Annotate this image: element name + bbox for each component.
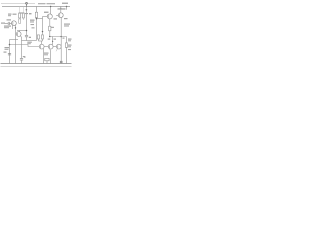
- wire Q5 emitter down: [49, 49, 51, 64]
- node junction dot C: [9, 44, 11, 46]
- label top right corner: [62, 3, 68, 4]
- wire C2 bottom: [26, 37, 28, 41]
- transistor Q7 top right: [58, 13, 63, 18]
- wire coupling line y40.5: [22, 40, 37, 42]
- wire Q6 base: [53, 46, 56, 48]
- wire R2 stubs: [22, 7, 24, 14]
- resistor R1: [19, 13, 21, 18]
- wire horizontal y36.5: [50, 36, 67, 38]
- label near x9.5: [5, 47, 10, 48]
- wire Q6 emitter stub: [56, 49, 57, 52]
- node junction dot B: [15, 27, 16, 28]
- wire bottom faint frame line: [1, 66, 72, 68]
- label plus C4: [23, 56, 26, 57]
- resistor R2: [22, 13, 24, 18]
- transistor Q5: [48, 44, 53, 49]
- node junction dot F: [49, 36, 51, 38]
- wire long vertical x61.2: [60, 18, 62, 64]
- node rail dot Q3: [50, 6, 51, 7]
- node supply terminal: [26, 2, 28, 6]
- wire feedback horizontal y44.5: [10, 45, 40, 47]
- wire cap to rail: [21, 60, 23, 64]
- label near x61 mid: [63, 38, 65, 39]
- wire R7 to rail: [46, 61, 48, 64]
- wire bottom 0V rail: [1, 63, 72, 65]
- resistor R8: [65, 43, 67, 48]
- wire Q3 emitter down: [49, 19, 51, 26]
- label R1 R2 values: [13, 14, 17, 15]
- wire drop to Q5: [52, 37, 54, 45]
- capacitor C1 input: [5, 22, 12, 25]
- wire rail stub x66.5: [66, 7, 68, 10]
- wire Q4 top: [41, 41, 43, 44]
- wire diode links: [37, 39, 39, 41]
- label right of x26.5: [30, 20, 35, 21]
- wire Q3 collector up: [50, 7, 52, 15]
- node junction dot D: [36, 18, 38, 20]
- node junction dot A: [26, 9, 28, 11]
- text labels as smudges: [1, 3, 72, 58]
- transistor Q1: [12, 21, 17, 26]
- transistor Q2: [16, 32, 21, 37]
- diode D2: [41, 35, 43, 39]
- wire R4 to node: [49, 31, 51, 37]
- node junction dot H: [52, 41, 53, 42]
- wire vertical x9.5: [9, 40, 11, 64]
- label input: [7, 19, 12, 20]
- resistor R3: [35, 12, 37, 17]
- transistor Q6: [56, 44, 61, 49]
- transistor Q4: [39, 44, 44, 49]
- node junction dot E: [42, 31, 43, 32]
- wire vertical x36.5: [36, 7, 38, 41]
- node junction dot G: [60, 36, 62, 38]
- wire Q4-Q5 link: [44, 46, 48, 48]
- label right of Q3: [54, 18, 58, 19]
- label right of Q7: [64, 18, 68, 19]
- wire Q1 collector leg: [12, 25, 14, 29]
- wire Q1 emitter long vertical x15.5: [15, 25, 17, 63]
- label above R7: [44, 53, 49, 54]
- label above Q3: [44, 12, 49, 13]
- label R5 under rail right: [58, 8, 66, 9]
- node rail dot Q7: [60, 8, 61, 9]
- wire top faint line: [1, 3, 35, 5]
- node rail dot right: [66, 6, 67, 7]
- wire top +V rail: [2, 6, 70, 8]
- wire Q7 collector up: [60, 7, 62, 13]
- emitter resistor R7: [45, 58, 49, 61]
- label C1: [8, 14, 12, 15]
- wire horizontal y30.5: [17, 30, 27, 32]
- label right of R8: [68, 39, 72, 40]
- wire Q7 base stub: [56, 14, 58, 16]
- wire vertical from rail x26.5: [26, 7, 28, 36]
- wire R1 stubs: [19, 7, 21, 14]
- resistor R1b lower: [19, 19, 21, 23]
- resistor R4: [49, 26, 51, 31]
- wire Q3 base: [43, 16, 48, 18]
- capacitor C2 electrolytic vertical: [25, 35, 28, 37]
- transistor Q3: [47, 14, 52, 19]
- wire Q2 emitter to x21.5: [20, 36, 21, 59]
- label plus C2: [29, 37, 31, 38]
- wire vertical x66.5 lower: [66, 37, 68, 64]
- node junction dot C2top: [26, 30, 28, 32]
- diode D1: [37, 35, 39, 39]
- wire horizontal y18.5: [37, 18, 43, 20]
- capacitor C4 electrolytic to ground: [20, 58, 23, 60]
- wire horizontal y39.5 stub: [10, 39, 19, 41]
- label right of R4: [51, 27, 55, 28]
- capacitor C3 on x9.5: [8, 53, 11, 55]
- wire Q4 emitter down: [42, 48, 44, 63]
- wire Q2 collector up: [19, 31, 21, 32]
- node speaker terminal: [60, 61, 63, 63]
- wire Q2 base: [15, 33, 18, 35]
- wire vertical x42.5: [42, 17, 44, 35]
- label below R4: [48, 39, 51, 40]
- label title right of terminal: [38, 3, 46, 4]
